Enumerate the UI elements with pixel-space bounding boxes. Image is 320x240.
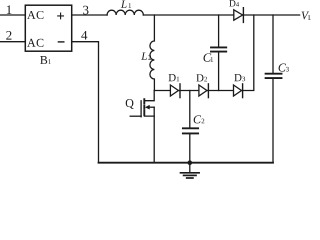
body arrow wire [148, 106, 154, 108]
diode D4 [234, 10, 243, 20]
inductor L2 [150, 15, 155, 91]
label AC bottom [27, 39, 43, 47]
label C1 [203, 53, 213, 61]
body arrowhead [145, 105, 150, 110]
ground [189, 163, 191, 173]
channel segment source [143, 111, 145, 115]
bottom rail wire [99, 162, 274, 164]
label C2 [194, 115, 205, 123]
label D4 [229, 0, 239, 6]
label D3 [234, 74, 245, 81]
label B1 [40, 56, 51, 64]
label Q [126, 99, 134, 109]
diode D3 [234, 85, 242, 96]
junction dot ground node [188, 160, 193, 165]
pin 2 wire [0, 41, 25, 43]
pin 1 label [7, 5, 12, 14]
minus mark [58, 41, 63, 43]
pin 3 label [83, 6, 88, 15]
pin 2 label [6, 31, 11, 40]
label D2 [196, 74, 207, 81]
channel segment drain [143, 99, 145, 103]
AC source box B1 [25, 5, 71, 51]
gate bar [140, 101, 142, 117]
label AC top [27, 11, 43, 19]
plus mark [58, 13, 64, 19]
body-source vertical [153, 107, 155, 116]
output label VL [302, 12, 312, 20]
channel segment body [143, 106, 145, 109]
capacitor C1 [218, 15, 220, 91]
label C3 [279, 64, 289, 72]
diode row wire [154, 15, 254, 91]
source lead [144, 116, 154, 163]
label L2 [141, 52, 151, 59]
label D1 [169, 74, 180, 81]
pin 3 wire [72, 14, 107, 16]
diode D1 [170, 85, 178, 96]
pin 4 label [81, 31, 87, 40]
inductor L1 [107, 10, 143, 15]
gate lead [130, 115, 141, 117]
drain lead [144, 91, 154, 101]
diode D2 [199, 85, 207, 96]
label L1 [121, 0, 131, 7]
top rail wire [143, 14, 299, 16]
pin 1 wire [0, 14, 25, 16]
capacitor C2 [189, 91, 191, 163]
capacitor C3 [272, 15, 274, 163]
pin 4 wire [72, 42, 99, 163]
